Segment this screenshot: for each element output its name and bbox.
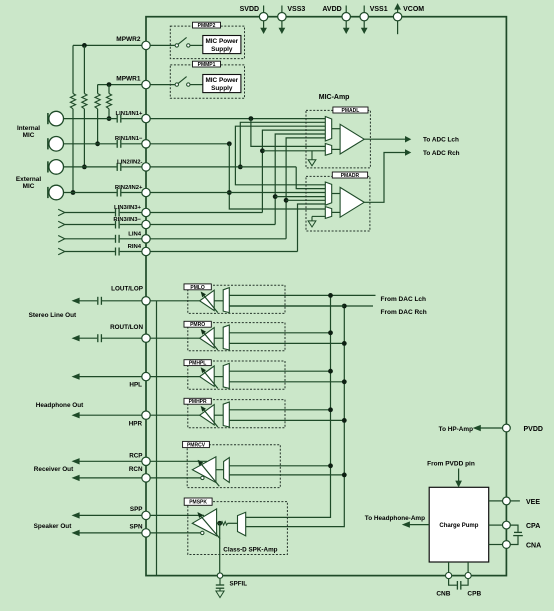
IC boundary box	[146, 17, 506, 576]
wire PMHPL mux top input	[229, 370, 330, 372]
block PMADR dashed box	[306, 176, 370, 231]
microphone M1	[48, 111, 64, 126]
wire From DAC Lch	[229, 295, 426, 302]
wire SPP internal	[150, 514, 204, 516]
svg-text:RIN2/IN2+: RIN2/IN2+	[115, 185, 143, 191]
svg-text:PMLO: PMLO	[190, 285, 205, 291]
label box PMHPL	[184, 360, 211, 367]
pin CPA	[503, 521, 541, 530]
block PMMP1 dashed box	[170, 65, 244, 98]
resistor R3 (MPWR1 to RIN1)	[95, 85, 100, 144]
block PMRCV dashed box	[187, 445, 280, 488]
input connector RIN4	[58, 248, 142, 256]
svg-text:HPL: HPL	[129, 381, 142, 388]
switch SW2	[175, 37, 203, 47]
svg-text:PMRO: PMRO	[190, 322, 205, 328]
block PMHPR dashed box	[188, 400, 285, 428]
svg-text:PMADR: PMADR	[341, 173, 360, 179]
junction LIN3 riser to PMADL aux-mux in2	[260, 148, 265, 153]
wire charge pump to CNA	[489, 544, 503, 546]
label box PMMP1	[193, 61, 221, 68]
wire riser LIN1 to PMADL aux-mux in1	[251, 119, 325, 147]
svg-text:From PVDD pin: From PVDD pin	[427, 460, 475, 467]
input connector LIN3/IN3+	[58, 209, 142, 217]
svg-text:ROUT/LON: ROUT/LON	[110, 324, 143, 331]
svg-text:PMHPL: PMHPL	[189, 361, 207, 367]
resistor R-SPK	[221, 522, 228, 526]
mux PMRO	[223, 325, 229, 350]
switch SW1	[175, 77, 203, 87]
pin HPL	[129, 372, 150, 388]
label box PMADL	[333, 107, 368, 114]
junction RIN1 riser	[227, 141, 232, 146]
junction PMHPR Rch tap	[342, 418, 347, 423]
junction riser crossing RIN2	[227, 190, 232, 195]
wire aux-mux to op-amp U2	[332, 211, 340, 213]
pin CNA	[503, 541, 542, 550]
svg-text:CNA: CNA	[526, 543, 541, 550]
wire PMHPR mux top input	[229, 409, 330, 411]
wire charge pump to CNB	[448, 562, 450, 573]
wire charge pump to CPA	[489, 524, 503, 526]
wire riser RIN1 to PMADR aux-mux in1	[229, 144, 325, 209]
mux PMADR aux	[325, 207, 331, 219]
junction PMHPL Rch tap	[342, 379, 347, 384]
svg-text:Supply: Supply	[211, 46, 233, 53]
svg-text:Class-D SPK-Amp: Class-D SPK-Amp	[223, 546, 277, 553]
mux PMADR main	[325, 182, 331, 205]
svg-text:PMADL: PMADL	[342, 108, 360, 114]
pin RIN3/IN3−	[113, 217, 150, 229]
svg-text:CPA: CPA	[526, 523, 540, 530]
wire RIN1 from pin	[150, 143, 229, 145]
wire SPP output line	[73, 513, 142, 518]
wire DAC Lch bus	[246, 295, 331, 517]
label box PMADR	[332, 172, 367, 179]
op-amp PMHPR amp	[200, 405, 218, 427]
wire LIN4 riser to PMADL in6	[150, 138, 325, 239]
input connector RIN3/IN3−	[58, 221, 142, 229]
block Charge Pump U3	[429, 487, 489, 562]
pin SPN	[130, 524, 151, 537]
svg-text:HPR: HPR	[129, 420, 143, 427]
pin SPP	[130, 506, 150, 519]
signal ground SPFIL	[216, 591, 224, 598]
svg-text:Headphone Out: Headphone Out	[36, 402, 84, 409]
wire PMRO mux bottom input	[229, 342, 344, 344]
mux PMSPK	[238, 512, 246, 536]
wire RCN internal	[150, 477, 201, 479]
junction PMRCV Lch tap	[328, 463, 333, 468]
wire resistor to mux	[228, 522, 238, 524]
junction R4-LIN1	[107, 116, 112, 121]
junction R1-RIN2	[71, 190, 76, 195]
wire amp to mux PMRO	[214, 337, 223, 339]
wire HPL internal	[150, 376, 200, 378]
label box PMLO	[184, 284, 211, 291]
wire RCN output line	[73, 475, 142, 480]
junction LIN1 riser	[249, 116, 254, 121]
pin LIN3/IN3+	[114, 205, 150, 217]
wire mux to op-amp U1	[332, 128, 340, 130]
pin RIN1/IN1−	[115, 136, 150, 148]
junction PMRO Rch tap	[342, 341, 347, 346]
wire To ADC Lch	[364, 137, 459, 144]
pin MPWR2	[73, 36, 175, 50]
junction Rch bus top	[342, 304, 347, 309]
resistor R4 (MPWR1 to LIN1)	[106, 85, 111, 119]
svg-text:MIC Power: MIC Power	[205, 38, 238, 45]
wire mux to op-amp U2	[332, 193, 340, 195]
svg-text:PMMP1: PMMP1	[198, 62, 216, 68]
junction MPWR1-R4	[107, 82, 112, 87]
label box PMMP2	[193, 22, 221, 29]
capacitor C-CNB/CPB	[449, 579, 469, 590]
wire amp to mux PMHPR	[214, 414, 223, 416]
op-amp U1 (PMADL amp)	[340, 124, 364, 154]
svg-text:Supply: Supply	[211, 85, 233, 92]
wire amp to mux PMHPL	[214, 376, 223, 378]
svg-text:CNB: CNB	[436, 590, 450, 597]
pin SPFIL	[217, 573, 247, 588]
pin MPWR1	[98, 75, 175, 88]
wire PMADR in4	[275, 196, 325, 198]
junction Lch bus top	[328, 293, 333, 298]
svg-text:External: External	[16, 176, 41, 183]
svg-text:PMMP2: PMMP2	[198, 23, 216, 29]
junction PMRCV Rch tap	[342, 473, 347, 478]
wire internal vertical rail	[156, 301, 158, 576]
svg-text:PMRCV: PMRCV	[187, 443, 206, 449]
pin CNB	[436, 573, 451, 598]
block PMMP2 dashed box	[170, 26, 244, 59]
wire aux-mux to op-amp U1	[332, 148, 340, 150]
svg-text:To HP-Amp: To HP-Amp	[439, 426, 473, 433]
pin AVDD	[322, 6, 350, 34]
wire SPFIL riser	[219, 523, 221, 573]
wire LOUT internal	[150, 300, 200, 302]
wire PMADL in2 riser to LIN2	[240, 122, 325, 167]
text External MIC	[16, 176, 41, 190]
svg-text:RIN1/IN1−: RIN1/IN1−	[115, 136, 143, 142]
svg-text:SPN: SPN	[130, 524, 143, 531]
pin ROUT/LON	[110, 324, 150, 342]
svg-text:Charge Pump: Charge Pump	[439, 523, 478, 529]
mux PMHPL	[223, 363, 229, 388]
pin RIN2/IN2+	[115, 185, 150, 197]
op-amp PMRO amp	[200, 328, 218, 350]
pin SVDD	[240, 6, 268, 34]
mux PMLO	[223, 288, 229, 313]
svg-text:SVDD: SVDD	[240, 6, 259, 13]
svg-text:SPP: SPP	[130, 506, 143, 513]
microphone M4	[48, 185, 64, 200]
wire PMLO mux bottom input	[229, 305, 344, 307]
pin VSS1	[360, 6, 388, 34]
svg-text:Internal: Internal	[17, 125, 40, 132]
svg-text:RCP: RCP	[129, 453, 142, 460]
microphone M3	[48, 160, 64, 175]
svg-text:To ADC Lch: To ADC Lch	[423, 137, 459, 144]
junction R2-LIN2	[82, 165, 87, 170]
mux PMRCV	[224, 458, 230, 483]
wire LIN2 to PMADR in2	[150, 167, 325, 189]
wire From DAC Rch	[229, 306, 426, 316]
capacitor C1	[64, 115, 142, 123]
svg-text:RCN: RCN	[129, 466, 143, 473]
pin RCN	[129, 466, 150, 482]
pin VCOM	[393, 4, 424, 34]
op-amp PMSPK amp Q1	[192, 509, 220, 539]
label box PMRO	[184, 321, 211, 328]
wire ROUT/LON output line	[73, 336, 98, 341]
wire PMRO mux top input	[229, 332, 330, 334]
svg-text:VSS3: VSS3	[287, 6, 305, 13]
junction PMRO Lch tap	[328, 330, 333, 335]
block PMSPK dashed box	[188, 502, 288, 555]
wire charge pump to CPB	[467, 562, 469, 573]
block PMRO dashed box	[188, 323, 285, 351]
pin RCP	[129, 453, 150, 466]
pin LIN1/IN1+	[115, 111, 150, 123]
wire PMRCV mux top input	[229, 465, 330, 467]
svg-text:LIN2/IN2-: LIN2/IN2-	[117, 159, 143, 165]
svg-text:RIN3/IN3−: RIN3/IN3−	[113, 217, 141, 223]
label box PMHPR	[184, 398, 211, 405]
junction PMHPL Lch tap	[328, 369, 333, 374]
wire amp input	[217, 522, 221, 524]
junction R3-RIN1	[95, 141, 100, 146]
block PMADL dashed box	[306, 110, 370, 167]
mux PMADL aux	[325, 144, 331, 156]
pin VSS3	[278, 6, 306, 34]
svg-text:LOUT/LOP: LOUT/LOP	[111, 285, 143, 292]
junction SPK input / SPFIL	[217, 521, 222, 526]
wire amp to mux PMLO	[214, 300, 223, 302]
block PMLO dashed box	[188, 285, 285, 313]
svg-text:Stereo Line Out: Stereo Line Out	[29, 312, 77, 319]
pin RIN4	[128, 244, 151, 256]
wire PMRCV mux bottom input	[229, 474, 344, 476]
wire SPN output line	[73, 530, 142, 535]
wire From PVDD pin arrow	[427, 460, 475, 486]
junction LIN2 riser	[238, 165, 243, 170]
wire ROUT internal	[150, 337, 200, 339]
wire To ADC Rch	[364, 150, 459, 202]
svg-text:RIN4: RIN4	[128, 244, 142, 250]
svg-text:To Headphone-Amp: To Headphone-Amp	[365, 515, 425, 522]
svg-text:MIC Power: MIC Power	[205, 77, 238, 84]
pin LIN4	[128, 231, 150, 243]
wire amp to mux PMRCV	[216, 469, 224, 471]
mux PMADL main	[325, 117, 331, 142]
op-amp PMLO amp	[200, 290, 218, 312]
wire RIN4 riser to PMADR in6	[150, 204, 325, 252]
wire SPN internal	[150, 532, 200, 534]
resistor R1 (MPWR2 to RIN2)	[70, 45, 75, 192]
wire DAC Rch bus	[246, 306, 345, 527]
label box PMSPK	[184, 498, 212, 506]
wire To Headphone-Amp arrow	[365, 515, 429, 527]
microphone M2	[48, 137, 64, 152]
capacitor C2	[64, 140, 142, 148]
junction RIN3 riser to PMADR in4	[273, 194, 278, 199]
wire RIN3 riser to PMADL in5	[150, 134, 325, 225]
svg-text:LIN1/IN1+: LIN1/IN1+	[115, 111, 143, 117]
block PMHPL dashed box	[188, 361, 285, 389]
text Internal MIC	[17, 125, 40, 139]
svg-text:VCOM: VCOM	[403, 6, 424, 13]
svg-text:PVDD: PVDD	[524, 426, 543, 433]
svg-text:To ADC Rch: To ADC Rch	[423, 150, 460, 157]
wire RCP internal	[150, 460, 207, 462]
wire HPR internal	[150, 414, 200, 416]
pin CPB	[465, 573, 481, 598]
capacitor C-ROUT	[98, 334, 142, 342]
svg-text:MIC: MIC	[23, 132, 35, 139]
svg-text:From DAC Lch: From DAC Lch	[381, 296, 427, 303]
wire RIN2 to PMADR in3	[150, 192, 325, 194]
capacitor C-SPFIL	[216, 578, 224, 591]
wire PMHPR mux bottom input	[229, 419, 344, 421]
signal ground PMADR	[308, 216, 325, 227]
wire LOUT/LOP output line	[73, 298, 98, 303]
junction MPWR2-R2	[82, 43, 87, 48]
svg-text:Receiver Out: Receiver Out	[34, 466, 74, 473]
junction LIN4 riser to PMADR in5	[284, 198, 289, 203]
op-amp PMRCV amp	[192, 457, 219, 486]
wire charge pump to VEE	[489, 500, 503, 502]
wire HPR output line	[73, 413, 142, 418]
svg-text:MIC: MIC	[23, 183, 35, 190]
pin LOUT/LOP	[111, 285, 150, 305]
wire PMADL aux-mux in2	[262, 150, 325, 152]
pin PVDD	[439, 424, 543, 433]
svg-text:PMHPR: PMHPR	[189, 399, 207, 405]
pin VEE	[503, 497, 541, 506]
capacitor C4	[64, 189, 142, 197]
svg-text:CPB: CPB	[467, 590, 481, 597]
block MIC Power Supply (PMMP2)	[203, 36, 241, 54]
svg-text:LIN3/IN3+: LIN3/IN3+	[114, 205, 142, 211]
wire LIN1 to PMADL in1	[150, 118, 325, 120]
svg-text:MIC-Amp: MIC-Amp	[319, 94, 350, 101]
pin HPR	[129, 411, 150, 427]
wire RCP output line	[73, 459, 142, 464]
svg-text:AVDD: AVDD	[322, 6, 341, 13]
wire PMADL in3 to PMADR in1 riser	[235, 126, 325, 185]
svg-text:VSS1: VSS1	[370, 6, 388, 13]
svg-text:PMSPK: PMSPK	[189, 500, 207, 506]
wire PMHPL mux bottom input	[229, 381, 344, 383]
svg-text:MPWR1: MPWR1	[116, 75, 141, 82]
mux PMHPR	[223, 402, 229, 427]
junction PMHPR Lch tap	[328, 407, 333, 412]
svg-text:LIN4: LIN4	[128, 231, 141, 237]
input connector LIN4	[58, 235, 142, 243]
op-amp PMHPL amp	[200, 366, 218, 388]
capacitor C-LOUT	[98, 297, 142, 305]
svg-text:From DAC Rch: From DAC Rch	[381, 309, 427, 316]
wire LIN3 riser to PMADL in4	[150, 130, 325, 212]
block MIC Power Supply (PMMP1)	[203, 75, 241, 93]
op-amp U2 (PMADR amp)	[340, 187, 364, 217]
label box PMRCV	[183, 441, 210, 448]
svg-text:Speaker Out: Speaker Out	[34, 523, 73, 530]
svg-text:SPFIL: SPFIL	[230, 580, 248, 587]
wire PMADR in5	[286, 199, 325, 201]
signal ground PMADL	[308, 151, 316, 166]
wire HPL output line	[73, 374, 142, 379]
resistor R2 (MPWR2 to LIN2)	[82, 45, 87, 166]
capacitor C3	[64, 163, 142, 171]
svg-text:MPWR2: MPWR2	[116, 36, 141, 43]
capacitor C-CPA/CNA	[510, 525, 523, 544]
pin LIN2/IN2-	[117, 159, 150, 171]
svg-text:VEE: VEE	[526, 499, 540, 506]
